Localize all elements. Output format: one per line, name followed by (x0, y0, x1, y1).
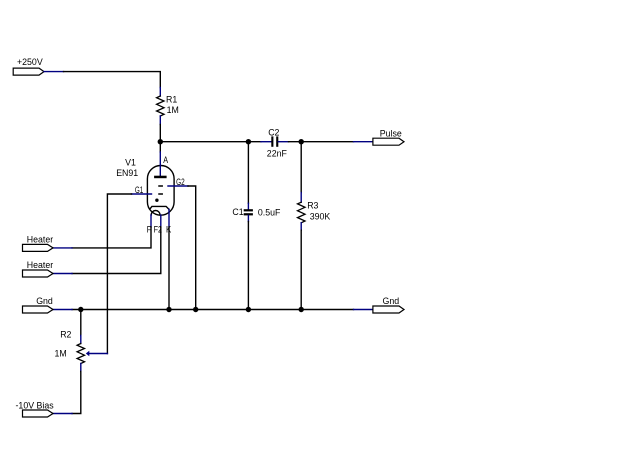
ground rail (72, 309, 354, 311)
svg-text:Pulse: Pulse (380, 128, 402, 138)
capacitor C2 (261, 127, 289, 158)
pin G1 (132, 193, 152, 195)
svg-text:G1: G1 (135, 185, 143, 195)
wire F2 to heater (72, 227, 161, 274)
potentiometer R2 (55, 310, 85, 372)
grid G2 dash (159, 185, 162, 187)
node dot R3 bottom (299, 307, 304, 312)
wire G2 to ground rail (188, 186, 196, 310)
wire R1 bottom to node (159, 125, 161, 142)
wire F to heater (72, 227, 151, 248)
svg-text:R1: R1 (166, 94, 177, 104)
svg-text:R2: R2 (60, 330, 71, 340)
svg-text:C1: C1 (232, 207, 243, 217)
capacitor C1 (232, 142, 281, 310)
wire R2 bottom to bias (72, 372, 81, 414)
resistor R1 (157, 88, 179, 125)
port Gnd right (354, 296, 405, 313)
pin G2 (168, 185, 188, 187)
pin A (159, 152, 161, 176)
port Pulse (354, 128, 405, 145)
port Gnd left (23, 296, 73, 313)
port Heater 1 (23, 234, 73, 251)
wire K to ground rail (168, 227, 170, 310)
svg-text:R3: R3 (307, 200, 318, 210)
cathode (150, 206, 169, 209)
pin K (168, 209, 170, 227)
node dot C1 top (246, 139, 251, 144)
wire anode vertical into tube (159, 142, 161, 152)
wire anode node rail left segment (160, 141, 261, 143)
node dot G2 (193, 307, 198, 312)
svg-text:V1: V1 (125, 158, 136, 168)
node dot K (166, 307, 171, 312)
filament (151, 211, 160, 216)
svg-text:0.5uF: 0.5uF (258, 208, 281, 218)
svg-text:1M: 1M (55, 349, 67, 359)
wiper R2 (86, 351, 108, 357)
node dot anode/R1 (158, 139, 163, 144)
wire +250V to R1 top (64, 72, 161, 88)
svg-text:Heater: Heater (27, 260, 53, 270)
grid G1 dash (159, 193, 162, 195)
node dot R2 top (78, 307, 83, 312)
svg-text:1M: 1M (167, 105, 179, 115)
svg-text:390K: 390K (310, 211, 331, 221)
svg-text:-10V Bias: -10V Bias (16, 401, 55, 411)
svg-text:EN91: EN91 (116, 168, 138, 178)
anode plate (154, 176, 167, 179)
pin F (150, 215, 152, 227)
svg-text:C2: C2 (268, 127, 279, 137)
port Heater 2 (23, 260, 73, 277)
port -10V Bias (16, 401, 73, 417)
svg-text:Heater: Heater (27, 234, 53, 244)
resistor R3 (298, 142, 331, 310)
pin F2 (160, 215, 162, 227)
svg-text:Gnd: Gnd (383, 296, 400, 306)
svg-text:+250V: +250V (17, 57, 43, 67)
node dot C1 bottom (246, 307, 251, 312)
node dot R3 top (299, 139, 304, 144)
wire C2 to pulse stub (289, 141, 354, 143)
wire G1 to wiper (107, 194, 131, 354)
svg-text:Gnd: Gnd (36, 296, 53, 306)
tube V1 envelope (147, 166, 174, 216)
port +250V (13, 57, 63, 75)
svg-text:22nF: 22nF (267, 149, 288, 159)
cathode dot (155, 199, 158, 202)
svg-text:G2: G2 (176, 177, 185, 187)
svg-text:A: A (163, 155, 168, 165)
